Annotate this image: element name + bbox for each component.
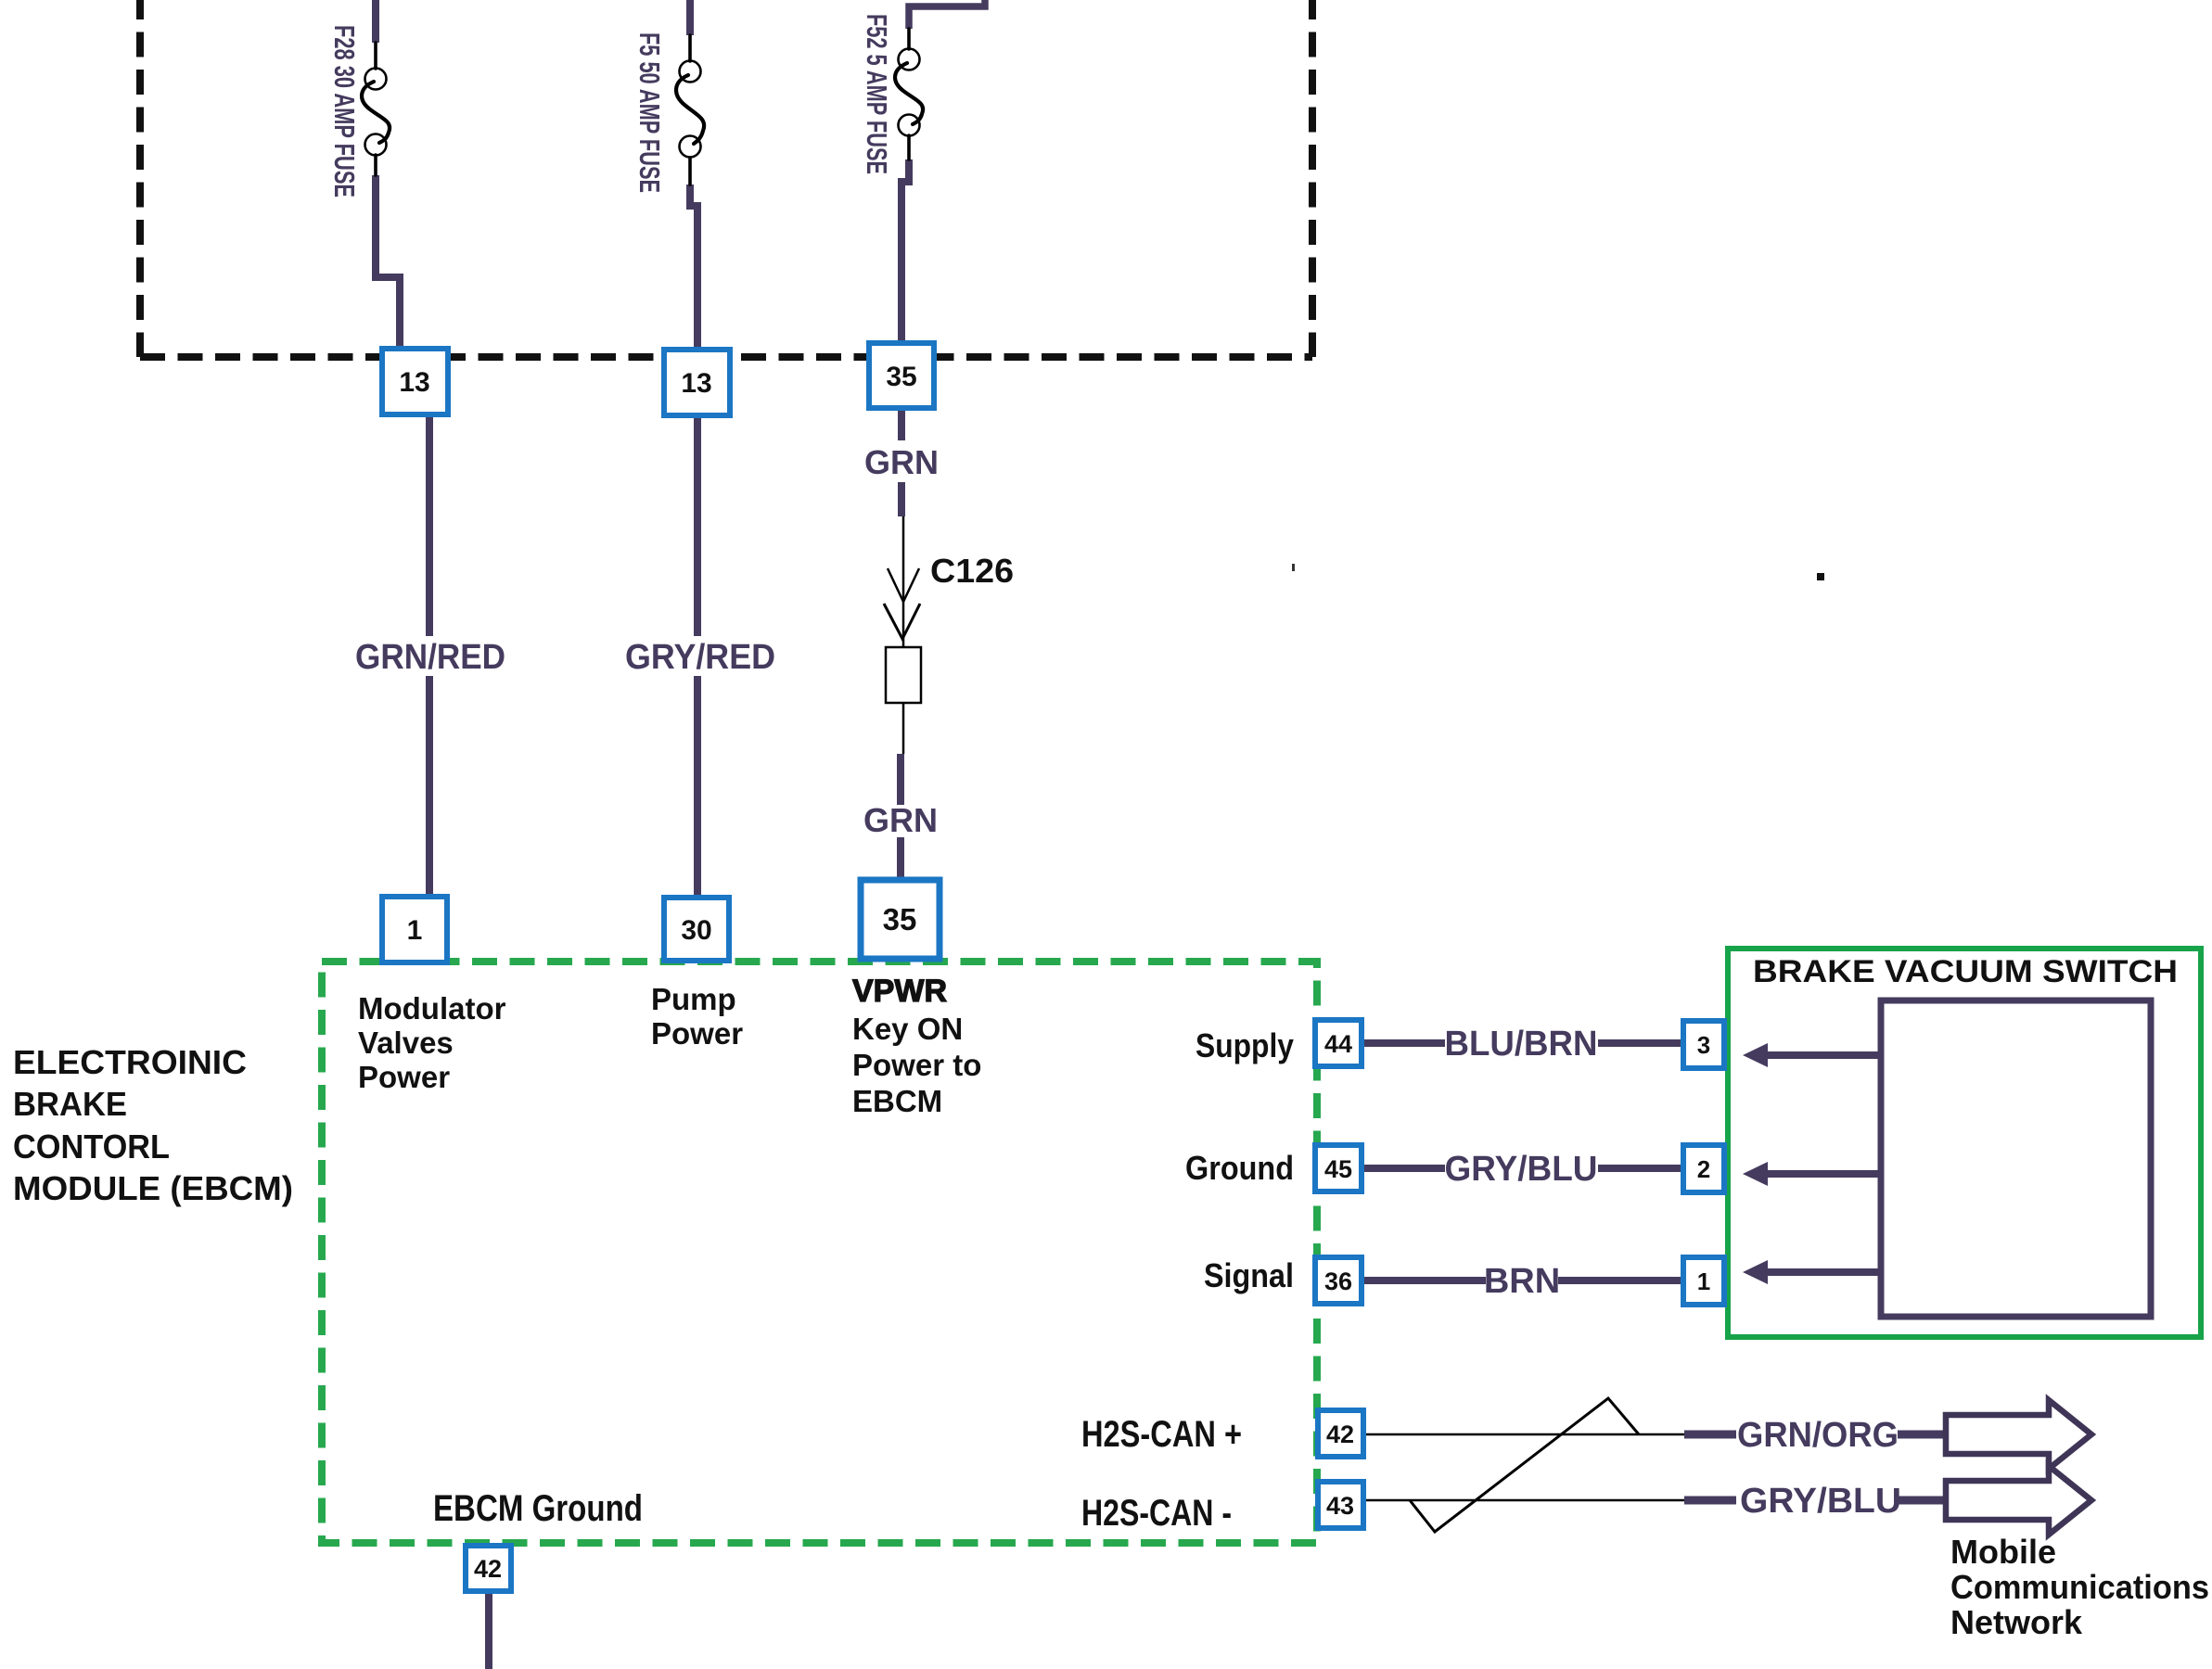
svg-text:Ground: Ground [1185, 1149, 1294, 1187]
svg-text:Modulator: Modulator [358, 991, 506, 1026]
svg-text:35: 35 [883, 902, 917, 936]
svg-text:42: 42 [1326, 1421, 1354, 1448]
svg-text:3: 3 [1697, 1031, 1710, 1059]
svg-text:H2S-CAN +: H2S-CAN + [1081, 1414, 1242, 1455]
svg-text:MODULE (EBCM): MODULE (EBCM) [13, 1169, 293, 1207]
svg-text:Network: Network [1950, 1603, 2083, 1641]
svg-text:13: 13 [681, 368, 711, 399]
svg-text:42: 42 [474, 1555, 502, 1583]
svg-text:ELECTROINIC: ELECTROINIC [13, 1043, 247, 1081]
svg-text:F52 5 AMP FUSE: F52 5 AMP FUSE [861, 14, 893, 174]
svg-text:44: 44 [1324, 1030, 1352, 1058]
svg-text:Power to: Power to [852, 1048, 981, 1082]
svg-text:GRN/ORG: GRN/ORG [1737, 1416, 1899, 1455]
svg-text:F5 50 AMP FUSE: F5 50 AMP FUSE [633, 32, 666, 193]
svg-text:EBCM: EBCM [852, 1084, 942, 1118]
svg-text:BRN: BRN [1484, 1262, 1560, 1301]
svg-text:36: 36 [1324, 1268, 1352, 1295]
svg-text:CONTORL: CONTORL [13, 1128, 170, 1166]
svg-text:1: 1 [1697, 1268, 1710, 1295]
svg-text:GRN/RED: GRN/RED [355, 638, 505, 677]
svg-text:2: 2 [1697, 1155, 1710, 1183]
svg-text:Valves: Valves [358, 1026, 454, 1060]
svg-text:BLU/BRN: BLU/BRN [1445, 1025, 1598, 1064]
svg-text:30: 30 [681, 915, 711, 946]
svg-text:EBCM Ground: EBCM Ground [433, 1488, 643, 1529]
svg-text:45: 45 [1324, 1155, 1352, 1183]
svg-text:Key ON: Key ON [852, 1012, 963, 1046]
svg-text:Communications: Communications [1950, 1568, 2209, 1606]
svg-text:13: 13 [399, 367, 429, 398]
svg-text:35: 35 [886, 362, 916, 392]
svg-text:Supply: Supply [1196, 1026, 1294, 1064]
svg-text:43: 43 [1326, 1492, 1354, 1520]
svg-text:Mobile: Mobile [1950, 1533, 2056, 1571]
svg-text:BRAKE: BRAKE [13, 1085, 127, 1123]
svg-text:H2S-CAN -: H2S-CAN - [1081, 1493, 1232, 1534]
svg-text:GRY/RED: GRY/RED [625, 638, 775, 677]
svg-text:BRAKE VACUUM SWITCH: BRAKE VACUUM SWITCH [1753, 954, 2178, 989]
svg-text:Pump: Pump [651, 982, 736, 1016]
svg-text:C126: C126 [930, 552, 1014, 590]
svg-text:Power: Power [651, 1016, 743, 1051]
svg-text:GRY/BLU: GRY/BLU [1740, 1482, 1901, 1521]
svg-text:GRN: GRN [863, 801, 938, 839]
svg-text:F28 30 AMP FUSE: F28 30 AMP FUSE [328, 25, 361, 197]
svg-text:Signal: Signal [1204, 1256, 1294, 1294]
svg-text:GRY/BLU: GRY/BLU [1445, 1150, 1598, 1189]
svg-text:Power: Power [358, 1060, 450, 1094]
svg-text:1: 1 [407, 915, 423, 946]
svg-text:VPWR: VPWR [852, 974, 947, 1009]
svg-text:GRN: GRN [864, 443, 939, 481]
